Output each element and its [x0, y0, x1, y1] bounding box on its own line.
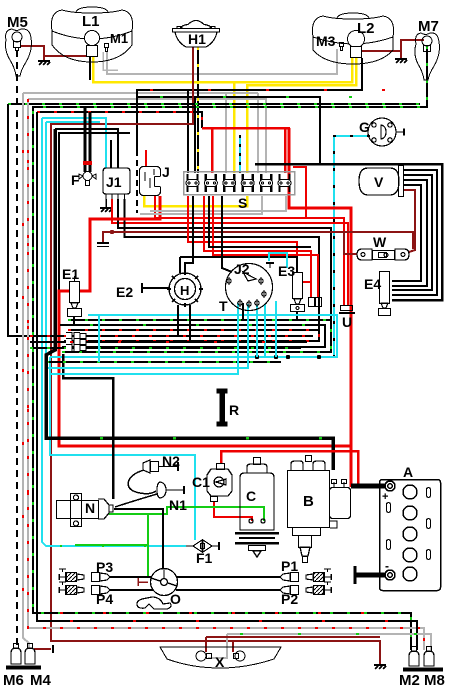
control unit C1: [207, 464, 232, 502]
horn H1: [173, 21, 220, 48]
svg-text:M1: M1: [110, 31, 128, 46]
ticks red row621: [70, 620, 400, 622]
wire black outer nest: [255, 164, 442, 300]
wire brown X row: [206, 636, 380, 638]
wire black F feed2: [89, 112, 92, 150]
wire red fuse drop a: [211, 128, 214, 173]
interior light W: [357, 249, 409, 260]
svg-text:H1: H1: [188, 31, 206, 47]
vacuum unit below O: [137, 597, 171, 609]
ticks green row97: [160, 96, 360, 98]
wire black-yellow H1 to fuse: [197, 47, 199, 173]
wire red J top: [145, 150, 147, 167]
wire cyan short drop: [98, 315, 100, 362]
svg-text:M3: M3: [316, 33, 336, 49]
wire black heavy to starter B: [46, 129, 333, 470]
wire grey M1 stub: [103, 52, 118, 70]
tail light M2: [409, 647, 419, 667]
turn signal M5: [6, 29, 32, 76]
wire red row255: [213, 196, 318, 297]
wire cyan to F1: [42, 118, 186, 546]
wire cyan T3: [256, 305, 258, 357]
horn E2/H: [167, 271, 203, 307]
wire green short row: [75, 544, 148, 546]
svg-text:-: -: [385, 559, 389, 573]
wire brown W left: [344, 232, 357, 254]
wire cyan T5: [275, 301, 277, 357]
wire black M5 to M6: [16, 50, 18, 645]
fuse F1: [186, 540, 219, 552]
wire black row97 to nest: [137, 97, 320, 164]
generator C: [235, 458, 279, 558]
wire grey-red row628 to M8: [28, 99, 424, 650]
wire red main feed to starter: [289, 128, 351, 487]
wire black-red row330 uturn: [64, 330, 319, 341]
wire grey row634 to M8: [227, 634, 431, 650]
svg-text:M6: M6: [3, 672, 24, 689]
parking light M1: [105, 44, 109, 52]
svg-text:C: C: [246, 488, 256, 504]
wire black row237: [125, 199, 320, 330]
wire black row621: [37, 112, 417, 650]
battery ground cable: [355, 573, 385, 578]
wire black nest4: [392, 180, 427, 286]
svg-text:E2: E2: [116, 284, 133, 300]
wire M5 to L1 brown: [21, 46, 86, 56]
svg-text:H: H: [180, 283, 189, 298]
wire yellow L2 branch to fuse: [247, 57, 356, 173]
wire brown X bulb2: [232, 641, 234, 652]
wire black row228: [118, 199, 331, 320]
generator G: [368, 118, 404, 146]
wire red row251: [204, 196, 311, 297]
wire grey row99 to fuse: [28, 99, 266, 173]
wire P3 to O: [110, 576, 151, 578]
ground J1: [100, 208, 112, 212]
connector pair row 336: [66, 333, 86, 340]
wire cyan row315 uturn: [50, 315, 337, 357]
wire black H drop2: [189, 305, 191, 342]
wire black row257 to E3: [180, 257, 297, 272]
distributor O: [151, 569, 178, 596]
wire cyan2 vertical: [45, 122, 47, 368]
battery A: [380, 480, 441, 591]
wire brown H1 left bundle ground run: [51, 47, 380, 664]
suppressor N1: [157, 482, 184, 498]
spark plug P4: [59, 582, 110, 595]
wire black nest3: [392, 175, 432, 290]
wire black coil to distributor O: [114, 509, 163, 568]
ground M2/M8: [374, 665, 386, 669]
ignition coil N: [57, 494, 114, 527]
wire grey drop fuse b: [257, 93, 259, 173]
wire black left edge to connector row: [8, 104, 62, 336]
svg-text:A: A: [403, 464, 413, 480]
svg-text:N2: N2: [162, 453, 180, 469]
svg-text:B: B: [303, 493, 314, 510]
ticks green row634: [240, 633, 420, 635]
wire black fuse to J2: [222, 196, 232, 272]
wire grey drop fuse a: [225, 93, 227, 173]
wire brown V to W: [404, 190, 415, 252]
svg-text:P2: P2: [281, 591, 298, 607]
cable adaptor R: [217, 389, 227, 426]
wire grey row214: [140, 196, 262, 214]
wire red fuse drop b: [284, 128, 287, 173]
turn signal M7: [415, 33, 440, 80]
svg-text:F1: F1: [196, 550, 213, 566]
wire O to P2: [176, 589, 280, 591]
wire black E1 drop: [73, 317, 75, 325]
svg-text:N: N: [85, 500, 95, 516]
wire black L1 stub: [89, 57, 91, 80]
wire black dashed J: [136, 150, 138, 213]
wire black J2 drop: [242, 303, 244, 320]
connector pair row 342: [66, 339, 86, 346]
svg-text:G: G: [359, 119, 370, 135]
wire black row325 uturn: [60, 325, 325, 347]
svg-text:P3: P3: [96, 559, 113, 575]
ticks green row325: [90, 324, 310, 326]
wire red fuse to E3: [188, 196, 297, 272]
svg-text:R: R: [229, 402, 239, 418]
wire black row247: [209, 196, 311, 247]
svg-text:S: S: [238, 195, 247, 211]
wire H left terminal: [142, 283, 169, 293]
HT lead N2 to N1: [128, 470, 156, 494]
svg-text:J1: J1: [106, 174, 122, 190]
starter B: [288, 456, 351, 563]
svg-text:P1: P1: [281, 558, 298, 574]
ignition switch J2/T: [226, 263, 275, 311]
svg-text:W: W: [373, 234, 387, 250]
wire black row378 to coil: [63, 354, 113, 499]
cigarette lighter U: [339, 306, 355, 314]
wire grey X feed: [208, 634, 227, 658]
ground near M5: [38, 61, 50, 65]
wire black nest2: [392, 170, 437, 295]
wire black H feed2: [179, 257, 181, 273]
svg-text:O: O: [170, 591, 181, 607]
ticks green cyan row: [60, 545, 180, 547]
wire black H feed: [185, 196, 193, 273]
tail light M4: [25, 644, 35, 665]
svg-text:M8: M8: [424, 672, 445, 689]
wire grey to M4: [23, 93, 29, 648]
cyan frame T: [269, 253, 287, 268]
terminal T15: [97, 243, 109, 247]
wire grey row211: [150, 196, 286, 211]
connector green O: [138, 578, 148, 586]
fuse box S: [184, 172, 295, 195]
ground near M7: [395, 59, 407, 63]
wire cyan G down: [334, 136, 370, 357]
wire red J to E1: [80, 196, 160, 291]
wire green coil to O: [109, 514, 148, 578]
wire brown M6M4 stub: [34, 648, 51, 650]
wire black fuse drop1: [187, 90, 189, 173]
wire black E3 bottom: [296, 311, 298, 319]
wire black-red row112: [37, 112, 202, 128]
wire red fuse drop right: [293, 167, 306, 218]
svg-text:+: +: [382, 491, 388, 503]
wire J1 ground stub: [105, 199, 107, 207]
switch E1: [68, 276, 82, 317]
wire cyan T2: [46, 304, 248, 368]
dimmer relay J: [140, 167, 161, 196]
wire red row128: [202, 127, 290, 130]
wire black J1 top stub: [110, 140, 112, 168]
wire black nest5: [392, 185, 421, 281]
svg-text:E1: E1: [62, 266, 79, 282]
wiper motor V: [359, 166, 404, 197]
headlight L1: [51, 7, 132, 62]
svg-text:J: J: [162, 164, 170, 180]
wire black row129 to J1: [55, 129, 118, 168]
wire brown X bulb1: [205, 637, 207, 652]
wire grey M1 to M3: [107, 49, 337, 74]
wire black-green row320 uturn: [62, 320, 331, 352]
svg-text:T: T: [219, 298, 228, 314]
relay J1: [103, 168, 130, 199]
wire red stub E3 right: [303, 281, 311, 283]
ticks red row342: [70, 341, 300, 343]
headlight L2: [312, 13, 393, 64]
terminal bar M6M4: [52, 645, 54, 653]
flasher F: [79, 150, 96, 186]
tail light M6: [11, 644, 21, 665]
svg-text:U: U: [342, 314, 352, 330]
wire green C to coil: [112, 507, 264, 521]
svg-text:L1: L1: [82, 13, 100, 30]
connector pair row 348: [66, 345, 86, 352]
wire red ticks row613: [60, 612, 400, 614]
wire red E1 to starter: [59, 291, 351, 487]
svg-text:X: X: [215, 654, 225, 670]
wire black L2 row90 to J: [137, 58, 362, 150]
spark plug P3: [59, 569, 110, 582]
svg-text:C1: C1: [192, 474, 210, 490]
tail light M8: [424, 647, 434, 667]
wire black fuse drop2: [194, 97, 196, 173]
svg-text:M2: M2: [399, 672, 420, 689]
svg-text:N1: N1: [169, 497, 187, 513]
wire red C1 to starter: [221, 451, 358, 487]
svg-text:V: V: [374, 174, 384, 190]
wire black-green row348: [30, 347, 301, 349]
suppressor N2: [143, 460, 178, 473]
wire red J to U: [155, 196, 344, 305]
svg-text:M5: M5: [7, 14, 28, 31]
wire cyan T1: [50, 303, 238, 374]
wire red J1 to U: [112, 199, 348, 305]
svg-text:F: F: [71, 172, 80, 188]
HT lead N1 to coil: [115, 494, 157, 507]
svg-text:L2: L2: [357, 20, 375, 37]
wire yellow drop to fuse S: [233, 82, 236, 173]
wire cyan T4: [264, 304, 266, 357]
wire black F feed1: [84, 107, 87, 150]
wire O to P1: [177, 576, 280, 578]
wire cyan row122: [46, 121, 100, 123]
parking light M3: [340, 43, 344, 51]
wire red C1 to generator C: [214, 501, 252, 521]
ticks red row90: [150, 89, 420, 91]
svg-text:E3: E3: [278, 263, 295, 279]
wire black-green M7 row107 to M2: [33, 46, 427, 650]
license plate light X: [160, 647, 281, 668]
ticks green row438: [100, 437, 330, 440]
wire black-green row362: [46, 361, 281, 363]
svg-text:E4: E4: [364, 276, 381, 292]
ticks red grey28: [27, 160, 29, 600]
wire cyan to F1 top: [50, 357, 195, 540]
wire cyan row118 to J1: [42, 118, 106, 168]
wire brown to M7: [401, 40, 424, 51]
wire brown L2 to ground: [362, 51, 401, 58]
switch E3: [291, 273, 305, 312]
wire brown T-term to W right: [103, 232, 413, 249]
svg-text:M7: M7: [418, 18, 439, 35]
wire black H drop1: [177, 305, 179, 336]
wire black-red row336: [30, 335, 313, 337]
svg-text:M4: M4: [30, 672, 51, 689]
wire ground stub M5: [43, 56, 45, 60]
wire black row133 down left: [59, 133, 130, 291]
wire black-green row104: [8, 103, 420, 105]
wire grey row93: [23, 92, 258, 94]
wire yellow L1 to L2: [93, 57, 352, 82]
ticks red grey23: [22, 150, 24, 600]
wire black row342: [30, 341, 307, 343]
spark plug P1: [280, 569, 331, 582]
wire P4 to O: [110, 589, 153, 591]
wire cyan striped fuse drop: [239, 135, 241, 173]
switch E4: [379, 272, 391, 316]
connector red: [309, 298, 322, 307]
wire yellow J to fuse: [144, 196, 247, 206]
svg-text:J2: J2: [234, 261, 250, 277]
spark plug P2: [280, 582, 331, 595]
battery positive cable: [351, 484, 385, 489]
svg-text:P4: P4: [96, 591, 113, 607]
